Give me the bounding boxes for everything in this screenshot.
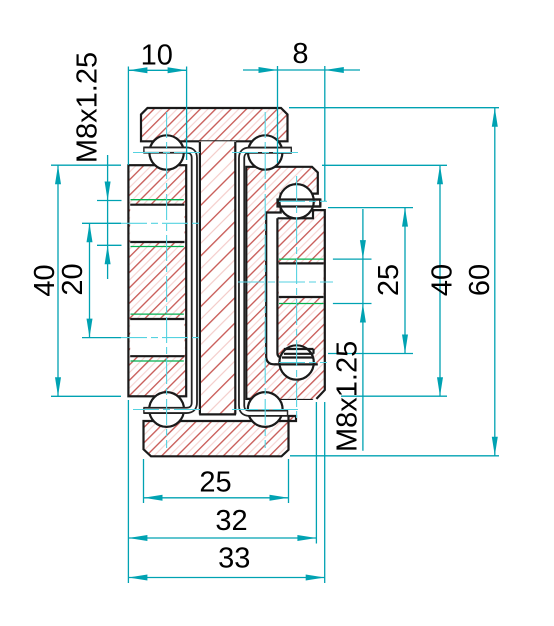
svg-text:10: 10 [141, 40, 173, 72]
svg-text:8: 8 [292, 38, 308, 70]
svg-text:32: 32 [215, 505, 247, 537]
svg-text:25: 25 [373, 264, 405, 296]
svg-text:M8x1.25: M8x1.25 [72, 52, 104, 163]
svg-text:25: 25 [199, 467, 231, 499]
svg-text:33: 33 [218, 543, 250, 575]
svg-text:M8x1.25: M8x1.25 [331, 341, 363, 452]
svg-text:20: 20 [57, 263, 89, 295]
svg-text:40: 40 [427, 264, 459, 296]
svg-text:60: 60 [464, 264, 496, 296]
